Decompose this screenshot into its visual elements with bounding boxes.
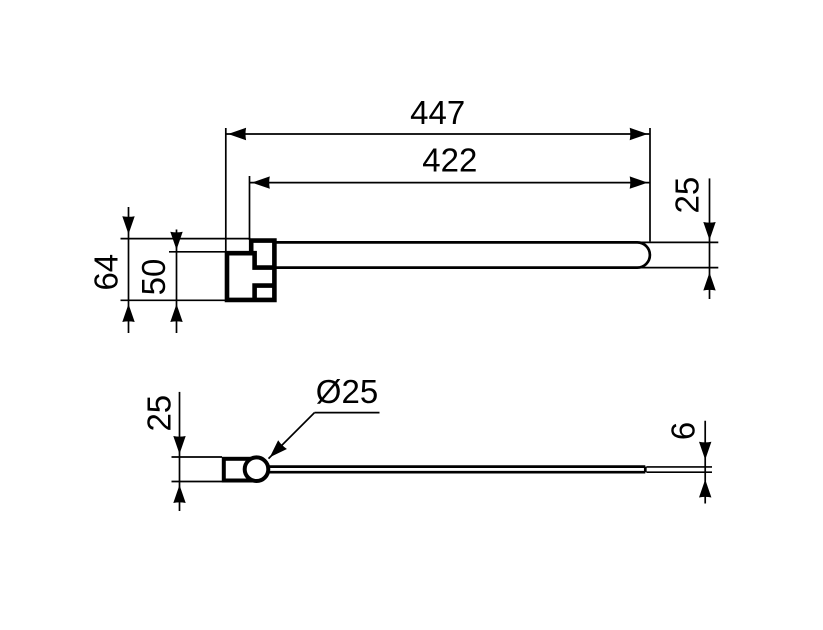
bracket top view outline [227,241,274,300]
extension line 64 50 bottom [121,299,226,301]
dimension 447 [226,94,650,140]
plate side view [224,459,257,481]
svg-text:422: 422 [422,142,477,179]
bar side view [265,467,645,473]
pivot circle side view [245,457,269,481]
dimension 6 [665,421,712,504]
dimension 50 [135,230,183,334]
extension lines bar thickness [647,467,713,472]
svg-text:25: 25 [669,177,706,214]
extension lines plate height [172,457,223,482]
dimension 25 top view [669,177,716,299]
leader diameter 25 [265,373,379,462]
extension line left face 447 [225,128,227,253]
bar top view outline [274,242,650,267]
dimension 25 side view [141,392,186,511]
extension line tab face 422 [249,176,251,240]
extension line 50 top [169,251,227,253]
extension lines bar width right [640,242,718,267]
svg-text:447: 447 [410,94,465,131]
dimension 64 [88,207,135,333]
svg-text:64: 64 [88,254,125,291]
svg-text:6: 6 [665,422,702,440]
extension line bar right end [649,128,651,241]
svg-text:50: 50 [135,259,172,296]
svg-text:Ø25: Ø25 [316,373,378,410]
extension line 64 top [121,238,251,240]
dimension 422 [250,142,651,189]
svg-text:25: 25 [141,395,178,432]
